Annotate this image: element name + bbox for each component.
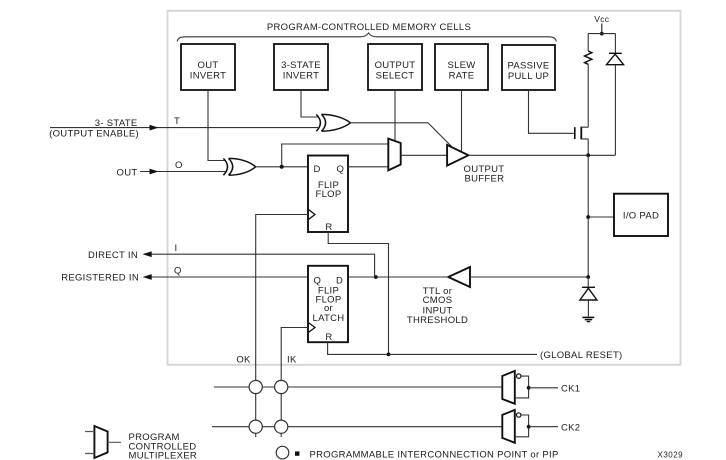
wire: I line (direct in)	[144, 254, 375, 277]
arrow on O input	[150, 169, 159, 175]
mux M3 (CK2 clock mux)	[502, 410, 530, 443]
transistor Q1 (passive pull-up pFET)	[575, 127, 588, 156]
svg-text:DIRECT IN: DIRECT IN	[88, 250, 138, 261]
svg-text:OUT: OUT	[117, 168, 138, 179]
node dot at I/O pad branch	[586, 215, 590, 219]
wire: T input line	[50, 127, 318, 129]
svg-text:INVERT: INVERT	[190, 71, 226, 82]
mux M4 (legend program controlled multiplexer)	[85, 426, 121, 458]
node dot at input branch	[586, 275, 590, 279]
label OUTPUT BUFFER	[464, 164, 505, 185]
svg-text:SELECT: SELECT	[376, 71, 415, 82]
svg-text:Q: Q	[174, 266, 182, 277]
svg-text:PASSIVE: PASSIVE	[507, 61, 549, 72]
XOR gate G2 (3-state invert)	[316, 114, 350, 131]
svg-text:R: R	[325, 332, 332, 343]
mux M2 (CK1 clock mux)	[502, 371, 530, 404]
node dot Vcc rail	[600, 32, 604, 36]
svg-text:(GLOBAL RESET): (GLOBAL RESET)	[540, 350, 623, 361]
legend PIP symbol	[276, 446, 289, 459]
wire: Vcc stem	[601, 24, 603, 34]
wire: OUTPUT SELECT to mux M1	[394, 90, 396, 141]
svg-text:Q: Q	[337, 164, 345, 175]
memory cell box 3-STATE INVERT	[274, 44, 328, 90]
node dot at G1 output	[280, 165, 284, 169]
wire: OUT INVERT to XOR G1	[208, 90, 226, 161]
svg-text:I/O PAD: I/O PAD	[623, 210, 659, 221]
brace over memory cells	[177, 33, 556, 42]
wire: IK clock line	[281, 328, 308, 438]
arrow on REGISTERED IN	[143, 274, 152, 280]
svg-text:OUTPUT: OUTPUT	[375, 60, 416, 71]
svg-text:IK: IK	[287, 355, 297, 366]
I/O PAD box	[614, 194, 668, 236]
memory cell box SLEW RATE	[435, 44, 488, 90]
wire: pad net vertical	[587, 155, 589, 277]
node dot input node	[374, 275, 378, 279]
svg-text:OUT: OUT	[198, 60, 219, 71]
wire: OK clock line	[256, 215, 308, 438]
wire: FF1 Q output to mux M1	[348, 166, 388, 168]
label PROGRAM CONTROLLED MULTIPLEXER	[129, 432, 198, 460]
wire: pad net to input buffer	[470, 276, 588, 278]
wire: PASSIVE PULL UP to transistor gate	[529, 90, 575, 133]
wire: Q line (registered in) from FF2	[144, 276, 308, 278]
XOR gate G1 (out invert)	[223, 158, 255, 175]
op-amp U1 output buffer triangle	[447, 145, 468, 166]
diode D2 (clamp to ground)	[580, 277, 597, 316]
arrow on T input	[150, 125, 159, 131]
legend PIP equals square	[295, 451, 299, 455]
node dot global reset junction	[387, 353, 391, 357]
label TTL or CMOS INPUT THRESHOLD	[407, 286, 468, 326]
wire: G1 output to FF1 D	[256, 166, 308, 168]
PIP on IK/CK2	[275, 420, 288, 433]
label 3-STATE (OUTPUT ENABLE)	[49, 118, 139, 139]
svg-text:RATE: RATE	[449, 71, 475, 82]
svg-text:MULTIPLEXER: MULTIPLEXER	[129, 450, 198, 460]
svg-text:R: R	[325, 222, 332, 233]
svg-text:PROGRAMMABLE INTERCONNECTION P: PROGRAMMABLE INTERCONNECTION POINT or PI…	[310, 449, 559, 460]
wire: 3-STATE INVERT to XOR G2	[301, 90, 318, 117]
frame: IOB boundary box	[168, 11, 681, 365]
svg-text:PROGRAM-CONTROLLED MEMORY CELL: PROGRAM-CONTROLLED MEMORY CELLS	[267, 22, 471, 33]
wire: O input line	[140, 171, 226, 173]
PIP on OK/CK2	[249, 420, 262, 433]
svg-text:O: O	[175, 160, 183, 171]
PIP on IK/CK1	[275, 380, 288, 393]
wire: buffer output to pad node	[468, 154, 615, 156]
memory cell box PASSIVE PULL UP	[502, 45, 555, 90]
svg-text:OK: OK	[236, 355, 251, 366]
wire: Vcc rail	[588, 33, 615, 35]
node dot pad net at buffer row	[586, 153, 590, 157]
flip-flop FF2 (flip flop or latch)	[308, 266, 348, 343]
wire: input buffer output to FF2 D	[348, 276, 448, 278]
memory cell box OUT INVERT	[181, 44, 235, 90]
resistor R1 (pull-up)	[585, 34, 592, 128]
svg-text:X3029: X3029	[658, 450, 684, 459]
wire: G2 output to buffer (3-state control)	[350, 123, 452, 148]
PIP on OK/CK1	[249, 380, 262, 393]
wire: global reset line	[389, 353, 538, 355]
wire: CK2 output	[529, 426, 558, 428]
wire: CK1 line	[214, 386, 502, 388]
svg-text:3-STATE: 3-STATE	[281, 60, 321, 71]
svg-text:SLEW: SLEW	[447, 60, 475, 71]
memory cell box OUTPUT SELECT	[368, 44, 422, 90]
svg-text:BUFFER: BUFFER	[465, 174, 505, 185]
svg-text:D: D	[314, 164, 321, 175]
arrow on DIRECT IN	[143, 251, 152, 257]
wire: SLEW RATE to output buffer	[461, 90, 463, 151]
svg-text:CK2: CK2	[561, 423, 580, 434]
svg-text:T: T	[174, 116, 180, 127]
svg-text:THRESHOLD: THRESHOLD	[407, 315, 468, 326]
wire: to I/O pad	[588, 216, 614, 218]
diode D1 (clamp to Vcc)	[607, 34, 624, 156]
wire: FF1 R to global reset	[328, 232, 388, 354]
svg-text:FLOP: FLOP	[315, 189, 341, 200]
flip-flop FF1	[308, 156, 348, 234]
wire: CK2 line	[212, 426, 502, 428]
svg-text:LATCH: LATCH	[313, 313, 345, 324]
svg-text:REGISTERED IN: REGISTERED IN	[61, 273, 139, 284]
svg-text:Vcc: Vcc	[594, 14, 610, 24]
svg-text:INVERT: INVERT	[283, 71, 319, 82]
svg-text:(OUTPUT ENABLE): (OUTPUT ENABLE)	[49, 129, 139, 140]
wire: mux M1 output to output buffer	[401, 154, 447, 156]
wire: FF2 R to global reset	[328, 342, 389, 354]
wire: CK1 output	[529, 387, 558, 389]
svg-text:I: I	[175, 243, 178, 254]
mux M1 (output select mux)	[388, 139, 400, 171]
svg-text:CK1: CK1	[561, 384, 580, 395]
op-amp U2 TTL/CMOS input buffer	[448, 267, 470, 287]
ground	[582, 317, 594, 321]
svg-text:PULL UP: PULL UP	[508, 71, 549, 82]
svg-text:CMOS: CMOS	[423, 295, 453, 306]
wire: G1 output up to mux M1 input	[282, 144, 389, 167]
